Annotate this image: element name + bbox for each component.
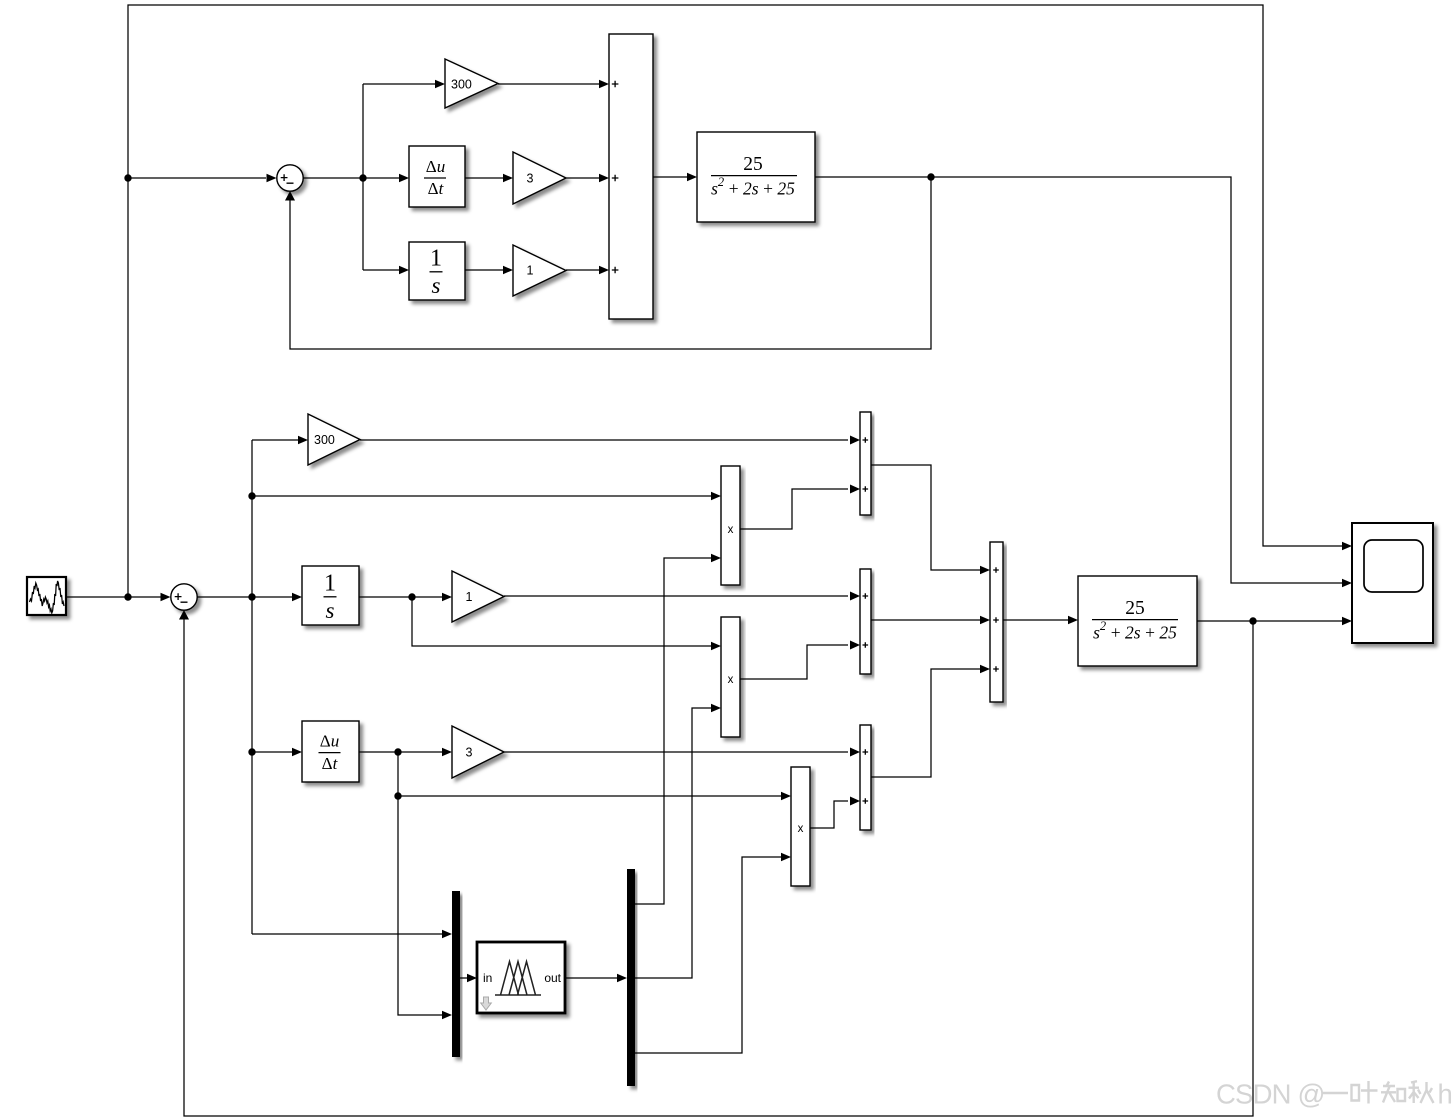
svg-text:1: 1	[430, 246, 442, 272]
arrowhead into adder input 2	[599, 174, 609, 182]
svg-text:s: s	[326, 598, 335, 623]
wire: error rail bottom to mux input 1	[252, 933, 445, 935]
wire: sum C output to big adder input 3	[871, 669, 983, 777]
arrowhead into product1 input 2	[711, 554, 721, 562]
wire: error rail vertical (feeds gain300, product1, derivative, mux)	[251, 440, 253, 934]
wire: integrator tap down to product2 input 1	[412, 597, 714, 646]
node: derivative output tap	[394, 748, 401, 755]
big adder block (three +)	[990, 542, 1003, 702]
wire: bottom gain 300 output to sum A input 1	[360, 439, 848, 441]
arrowhead into adder input 3	[599, 266, 609, 274]
gain block 1 (top, triangle)	[513, 245, 566, 296]
svg-text:Δu: Δu	[426, 157, 445, 176]
wire: bottom integrator output to gain 1	[359, 596, 445, 598]
arrowhead into sum C input 2	[850, 797, 860, 806]
wire: top gain 300 output to adder input 1	[498, 83, 602, 85]
wire: branch to top integrator	[363, 269, 402, 271]
transfer-function block 25/(s^2+2s+25) (bottom)	[1078, 576, 1197, 666]
sum block B (skinny, two +)	[860, 569, 871, 674]
wire: error rail to bottom derivative	[252, 751, 295, 753]
svg-text:s2 + 2s + 25: s2 + 2s + 25	[711, 175, 795, 199]
svg-text:Δu: Δu	[320, 732, 339, 751]
arrowhead into big adder input 1	[980, 566, 990, 574]
wire: sum A output to big adder input 1	[871, 465, 983, 570]
arrowhead into sum B input 1	[850, 592, 860, 601]
wire: bottom derivative output to gain 3	[359, 751, 445, 753]
mux block (black bar)	[452, 891, 460, 1057]
wire: adder output to transfer function 1	[653, 176, 690, 178]
wire: source output to bottom sum	[66, 596, 163, 598]
watermark char: zhi	[1381, 1082, 1405, 1103]
arrowhead into transfer function 1	[687, 173, 697, 181]
wire: top gain 3 output to adder input 2	[566, 177, 602, 179]
wire: demux output 2 up to product2 input 2	[635, 708, 714, 978]
svg-text:1: 1	[527, 264, 534, 278]
node: TF2 output junction	[1249, 617, 1256, 624]
arrowhead into fuzzy controller	[467, 974, 477, 982]
svg-text:x: x	[728, 524, 734, 536]
arrowhead into bottom gain 3	[442, 748, 452, 756]
wire: feedback from TF2 junction around bottom back to bottom sum	[184, 618, 1253, 1116]
node: TF1 output junction	[927, 173, 934, 180]
wire: branch to top gain 300	[363, 83, 438, 85]
watermark: CSDN @	[1216, 1079, 1325, 1110]
fuzzy logic controller block	[477, 942, 565, 1013]
arrowhead into mux input 1	[442, 930, 452, 938]
svg-text:s2 + 2s + 25: s2 + 2s + 25	[1093, 619, 1177, 643]
svg-text:300: 300	[314, 433, 335, 447]
product block 2 (x)	[721, 617, 740, 737]
svg-text:1: 1	[466, 590, 473, 604]
node: integrator output tap	[408, 593, 415, 600]
arrowhead into scope input 1	[1342, 542, 1352, 550]
adder block Add (top, tall rectangle with three +)	[609, 34, 653, 319]
wire: TF1 junction to scope input 2	[931, 177, 1342, 583]
wire: error rail to product1 input 1	[252, 495, 714, 497]
wire: sum B output to big adder input 2	[871, 619, 983, 621]
product block 3 (x)	[791, 767, 810, 886]
arrowhead into top gain 300	[435, 80, 445, 88]
watermark char: qiu	[1409, 1081, 1434, 1103]
arrowhead into scope input 2	[1342, 579, 1352, 587]
arrowhead into bottom derivative	[292, 748, 302, 756]
watermark char: ye	[1352, 1081, 1378, 1104]
arrowhead into mux input 2	[442, 1011, 452, 1019]
arrowhead into bottom sum	[161, 593, 171, 601]
product block 1 (x)	[721, 466, 740, 585]
sum junction Sum1 (top, circle +/-)	[277, 165, 303, 191]
svg-text:25: 25	[743, 154, 763, 175]
arrowhead into sum C input 1	[850, 748, 860, 757]
arrowhead into sum B input 2	[850, 641, 860, 650]
svg-text:3: 3	[466, 746, 473, 760]
watermark char: h	[1438, 1079, 1453, 1110]
wire: feedback from TF1 junction down and back to top sum	[290, 177, 931, 349]
arrowhead into product3 input 1	[781, 792, 791, 800]
wire: top sum output to derivative block with branch	[304, 177, 403, 179]
wire: top derivative to gain 3	[465, 177, 506, 179]
arrowhead into sum A input 1	[850, 436, 860, 445]
arrowhead into scope input 3	[1342, 617, 1352, 625]
arrowhead: feedback entering bottom of bottom sum (pointing up)	[179, 610, 189, 620]
arrowhead into bottom gain 300	[298, 436, 308, 444]
svg-text:Δt: Δt	[428, 179, 445, 198]
sum junction Sum2 (bottom, circle +/-)	[171, 584, 197, 610]
node: junction of left rail with source wire	[124, 593, 131, 600]
wire: bottom gain 3 output to sum C input 1	[504, 751, 848, 753]
arrowhead into top sum	[267, 174, 277, 182]
gain block 3 (top, triangle)	[513, 152, 566, 204]
arrowhead into top gain 1	[503, 266, 513, 274]
svg-text:Δt: Δt	[322, 754, 339, 773]
arrowhead into bottom integrator	[292, 593, 302, 601]
integrator block 1/s (top)	[409, 242, 465, 300]
svg-text:out: out	[544, 971, 561, 985]
gain block 3 (bottom, triangle)	[452, 726, 504, 778]
wire: product1 output to sum A input 2	[740, 489, 848, 529]
source block: band-limited white noise	[27, 577, 66, 615]
wire: fuzzy controller output to demux	[565, 977, 620, 979]
svg-text:s: s	[432, 273, 441, 298]
gain block 300 (bottom, triangle)	[308, 414, 360, 465]
svg-text:h: h	[1438, 1079, 1453, 1110]
arrowhead into bottom gain 1	[442, 593, 452, 601]
integrator block 1/s (bottom)	[302, 566, 359, 625]
arrowhead into demux	[617, 974, 627, 982]
node: error rail branch	[248, 593, 255, 600]
watermark char: yi	[1322, 1092, 1348, 1094]
arrowhead into product2 input 1	[711, 642, 721, 650]
gain block 300 (top, triangle)	[445, 59, 498, 108]
derivative block du/dt (top)	[409, 146, 465, 207]
node: derivative tap to product3	[394, 792, 401, 799]
sum block C (skinny, two +)	[860, 725, 871, 830]
gain block 1 (bottom, triangle)	[452, 571, 504, 622]
node: branch after top sum	[359, 174, 366, 181]
wire: mux output to fuzzy controller	[460, 977, 470, 979]
arrowhead: feedback entering bottom of top sum (pointing up)	[285, 191, 295, 201]
wire: demux output 1 up to product1 input 2	[635, 558, 714, 904]
wire: reference signal top border from left rail to scope input 1	[128, 5, 1342, 597]
scope block	[1352, 523, 1433, 643]
wire: derivative tap to product3 input 1	[398, 795, 784, 797]
svg-text:300: 300	[451, 78, 472, 92]
wire: bottom sum output to integrator with error rail branch	[198, 596, 296, 598]
derivative block du/dt (bottom)	[302, 721, 359, 782]
wire: left rail to top sum junction	[128, 177, 266, 179]
wire: TF2 output to junction	[1197, 620, 1253, 622]
arrowhead into big adder input 3	[980, 665, 990, 673]
wire: TF2 junction to scope input 3	[1253, 620, 1342, 622]
wire: bottom gain 1 output to sum B input 1	[504, 595, 848, 597]
svg-text:CSDN @: CSDN @	[1216, 1079, 1325, 1110]
wire: demux output 3 up to product3 input 2	[635, 857, 784, 1053]
node: junction on left rail feeding top sum	[124, 174, 131, 181]
wire: derivative tap down to mux input 2	[398, 752, 445, 1015]
arrowhead into sum A input 2	[850, 485, 860, 494]
svg-text:3: 3	[527, 172, 534, 186]
wire: TF1 output to junction	[815, 176, 931, 178]
demux block (black bar)	[627, 869, 635, 1086]
wire: big adder output to transfer function 2	[1003, 619, 1071, 621]
wire: product3 output to sum C input 2	[810, 801, 848, 828]
wire: error rail to bottom gain 300	[252, 439, 301, 441]
node: error rail tap to derivative	[248, 748, 255, 755]
svg-text:1: 1	[324, 571, 336, 597]
arrowhead into product1 input 1	[711, 492, 721, 500]
svg-text:25: 25	[1125, 598, 1145, 619]
node: error rail tap to product1	[248, 492, 255, 499]
wire: branch vertical to gain and integrator rows	[362, 84, 364, 270]
arrowhead into product3 input 2	[781, 853, 791, 861]
wire: top integrator to gain 1	[465, 269, 506, 271]
arrowhead into top integrator	[399, 266, 409, 274]
svg-text:in: in	[483, 971, 492, 985]
wire: product2 output to sum B input 2	[740, 645, 848, 679]
arrowhead into top gain 3	[503, 174, 513, 182]
arrowhead into top derivative	[399, 174, 409, 182]
svg-text:x: x	[728, 674, 734, 686]
wire: top gain 1 output to adder input 3	[566, 269, 602, 271]
arrowhead into adder input 1	[599, 80, 609, 88]
svg-text:x: x	[798, 823, 804, 835]
transfer-function block 25/(s^2+2s+25) (top)	[697, 132, 815, 222]
arrowhead into product2 input 2	[711, 704, 721, 712]
sum block A (skinny, two +)	[860, 412, 871, 515]
arrowhead into transfer function 2	[1068, 616, 1078, 624]
arrowhead into big adder input 2	[980, 616, 990, 624]
